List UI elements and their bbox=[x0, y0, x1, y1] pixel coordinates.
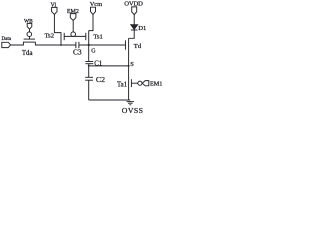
svg-text:S: S bbox=[130, 61, 134, 68]
svg-text:WB: WB bbox=[24, 19, 33, 25]
svg-text:G: G bbox=[91, 49, 96, 55]
svg-text:Td: Td bbox=[134, 43, 142, 50]
svg-text:EM1: EM1 bbox=[150, 81, 162, 88]
svg-text:Data: Data bbox=[2, 37, 12, 42]
svg-text:Vcm: Vcm bbox=[90, 1, 102, 8]
svg-text:D1: D1 bbox=[138, 25, 146, 32]
svg-text:Tda: Tda bbox=[22, 50, 33, 57]
svg-text:Ts1: Ts1 bbox=[93, 34, 102, 41]
svg-text:C1: C1 bbox=[94, 61, 102, 68]
svg-text:EM2: EM2 bbox=[67, 9, 79, 15]
svg-text:Ta1: Ta1 bbox=[117, 82, 127, 89]
svg-text:C3: C3 bbox=[73, 47, 82, 56]
svg-text:OVSS: OVSS bbox=[122, 106, 144, 115]
svg-text:Vi: Vi bbox=[51, 3, 57, 9]
svg-text:C2: C2 bbox=[96, 75, 105, 84]
svg-text:Ts2: Ts2 bbox=[45, 32, 54, 39]
svg-text:OVDD: OVDD bbox=[124, 0, 143, 7]
